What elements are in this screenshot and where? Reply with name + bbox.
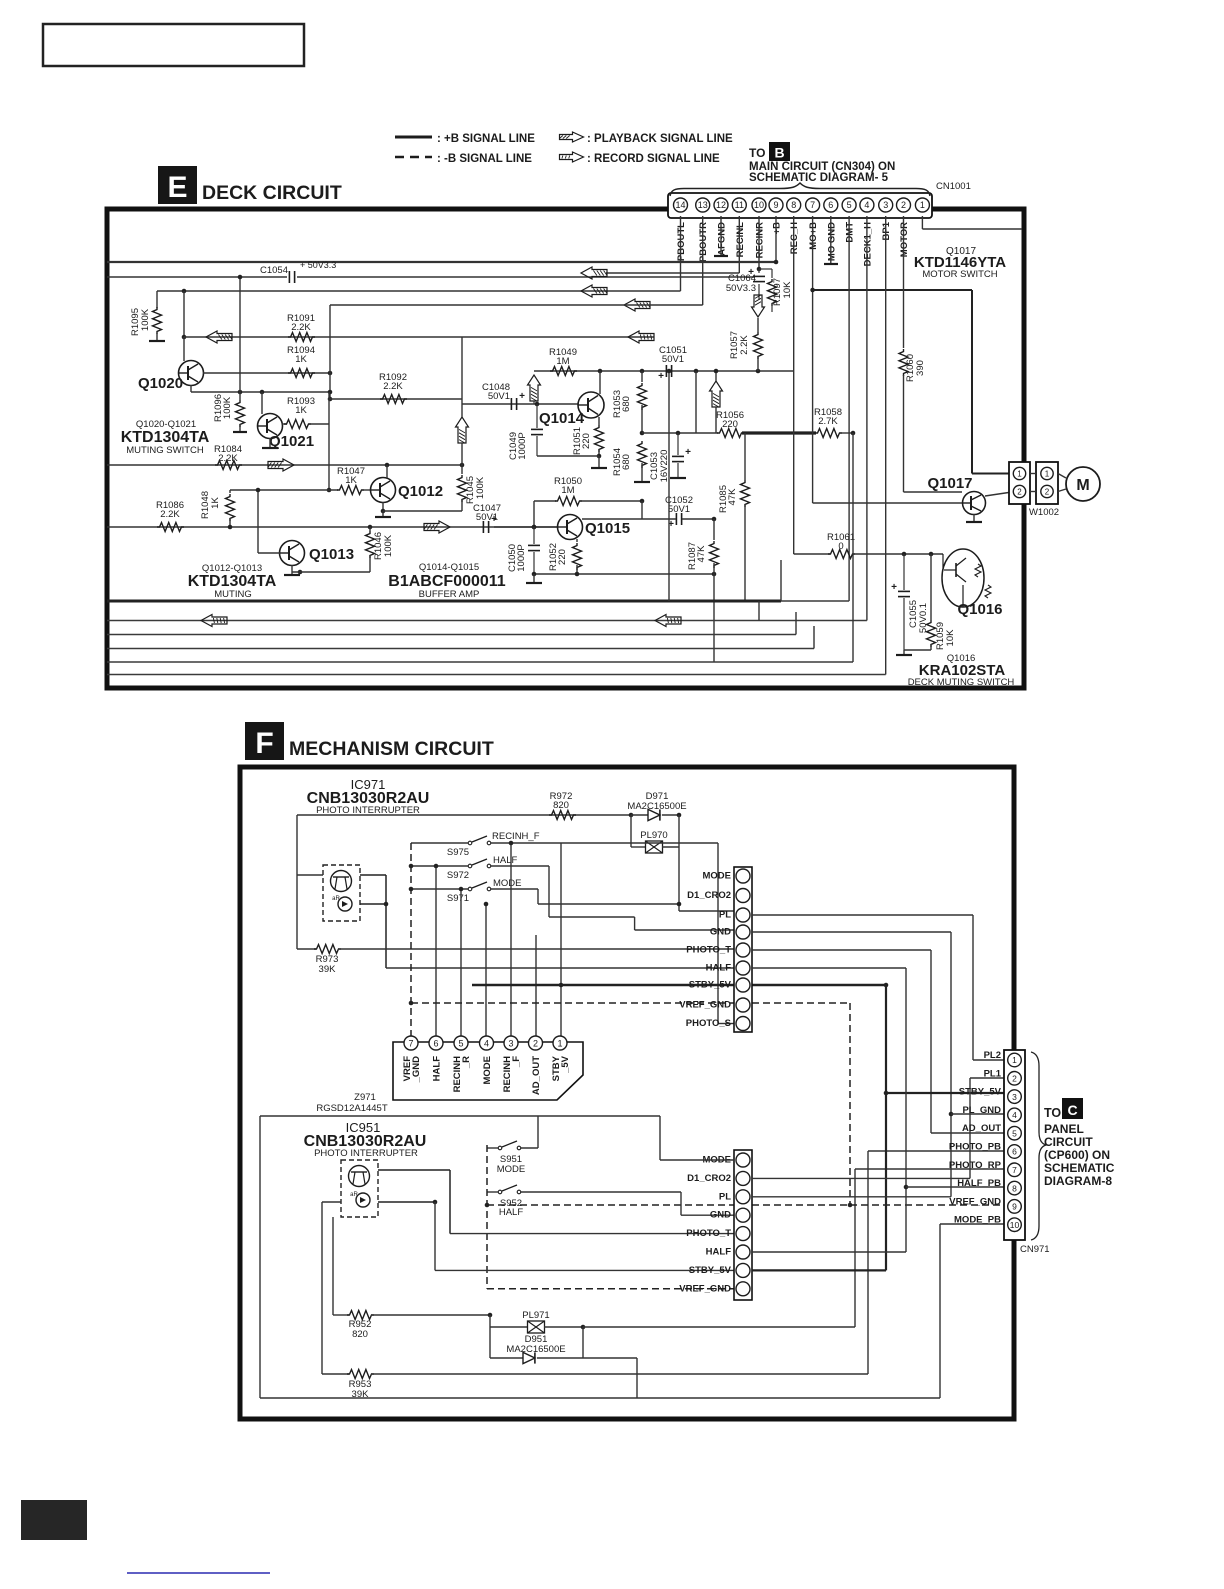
wire x696 vertical [695, 371, 697, 433]
resistor R1059 [930, 554, 932, 620]
svg-text:DECK CIRCUIT: DECK CIRCUIT [202, 182, 342, 204]
node RECINR junction [757, 267, 762, 272]
wire upper GND right to PL_GND [752, 931, 951, 933]
wire y949 PHOTO_T row [338, 948, 734, 950]
svg-text:+: + [658, 371, 664, 382]
transistor Q1014 [578, 392, 604, 418]
pin 8 CN1001 [787, 198, 801, 212]
wire Q1013 emitter ground [291, 565, 293, 575]
transistor Q1021 [261, 392, 263, 414]
svg-text:PHOTO_T: PHOTO_T [686, 945, 731, 956]
switch S971 [468, 887, 472, 891]
svg-text:RECINL: RECINL [735, 222, 746, 258]
wire y815 [297, 814, 631, 816]
svg-text:4: 4 [1012, 1110, 1017, 1120]
capacitor C1053 [676, 431, 681, 436]
svg-text:9: 9 [1012, 1202, 1017, 1212]
svg-text:PL_GND: PL_GND [962, 1105, 1001, 1116]
svg-text:39K: 39K [352, 1389, 370, 1400]
wire pin3 BP1 down [885, 216, 887, 675]
resistor R1053 [641, 371, 643, 382]
resistor R1095 [156, 291, 158, 308]
pin MODE upper strip [736, 869, 750, 883]
svg-text:PL2: PL2 [984, 1050, 1001, 1061]
wire photo951 left down [322, 1201, 341, 1203]
wire pin5 DMT down [848, 216, 850, 601]
wire photo951 led right [378, 1201, 435, 1203]
node Q1012 collector [385, 463, 390, 468]
motor M [1066, 467, 1100, 501]
lamp PL970 [630, 815, 632, 847]
wire Q1012 emitter [382, 502, 384, 511]
resistor R1047 [337, 486, 364, 495]
connector W1002 [1009, 462, 1030, 504]
svg-text:AD_OUT: AD_OUT [531, 1056, 542, 1095]
wire Q1017 collector to W1002 pin2 [985, 492, 1012, 496]
wire photo transistor right [360, 874, 386, 876]
wire y574 bottom [534, 573, 714, 575]
svg-text:Q1014-Q1015: Q1014-Q1015 [419, 562, 479, 573]
resistor R952 [347, 1311, 374, 1320]
transistor Q1013 [280, 541, 305, 566]
svg-text:2.2K: 2.2K [383, 381, 403, 392]
wire bottom rail 4 [107, 648, 814, 650]
node R1059 top [929, 552, 934, 557]
playback arrow y527 [424, 521, 450, 533]
svg-text:Q1013: Q1013 [309, 546, 354, 563]
svg-text:+B: +B [772, 222, 783, 235]
wire x855 up to PHOTO_T row [854, 1169, 856, 1327]
resistor R1094 [288, 369, 315, 378]
transistor Q1016 dual [942, 549, 984, 607]
pin D1_CRO2 upper strip [736, 889, 750, 903]
node rail junction x184 [182, 289, 187, 294]
svg-text:50V3.3: 50V3.3 [726, 283, 756, 294]
svg-text:PBOUTR: PBOUTR [698, 222, 709, 262]
wire IC951 loop bottom [260, 1397, 940, 1399]
wire x330 to rail y305 [330, 304, 703, 306]
legend -B signal line [395, 156, 432, 159]
wire lower STBY row [752, 1269, 886, 1271]
svg-text:220: 220 [581, 433, 592, 449]
svg-text:MOTOR: MOTOR [899, 222, 910, 257]
svg-text:MODE: MODE [493, 878, 522, 889]
record arrow x716 up [710, 381, 723, 407]
svg-text:Q1015: Q1015 [585, 520, 630, 537]
node PL971 left [488, 1313, 493, 1318]
svg-text:100K: 100K [475, 476, 486, 499]
wire x669 vertical [668, 371, 670, 601]
wire rail y273 [606, 272, 739, 274]
wire bottom rail 6 [107, 674, 886, 676]
svg-text:VREF_GND: VREF_GND [949, 1196, 1001, 1207]
wire stub x781 [780, 560, 782, 601]
svg-text:5: 5 [1012, 1128, 1017, 1138]
svg-text:MOTOR SWITCH: MOTOR SWITCH [922, 269, 997, 280]
capacitor C1052 [675, 513, 677, 525]
svg-text:10: 10 [754, 200, 764, 210]
pin 6 CN971 [1008, 1145, 1022, 1159]
pin 7 Z971 [404, 1036, 418, 1050]
node R1045 top [460, 463, 465, 468]
svg-text:PL: PL [719, 910, 731, 921]
svg-text:PHOTO_PB: PHOTO_PB [949, 1142, 1001, 1153]
wire y404 base line [462, 403, 578, 405]
pin VREF_GND lower strip [736, 1282, 750, 1296]
svg-text:1M: 1M [556, 356, 569, 367]
transistor Q1015 [558, 515, 583, 540]
wire y1374 right [371, 1373, 868, 1375]
ground Q1017 [973, 514, 975, 522]
legend +B signal line [395, 136, 432, 139]
wire lower D1_CRO2 to PL1 [752, 1177, 970, 1179]
svg-text:: RECORD SIGNAL LINE: : RECORD SIGNAL LINE [587, 153, 720, 165]
photo interrupter IC951 symbol [341, 1160, 378, 1217]
ground C1053 [670, 477, 686, 479]
title box (empty) [43, 24, 304, 66]
svg-text:PHOTO_S: PHOTO_S [686, 1018, 731, 1029]
svg-text:Z971: Z971 [354, 1092, 376, 1103]
svg-text:MO GND: MO GND [826, 222, 837, 261]
pin VREF_GND upper strip [736, 998, 750, 1012]
svg-text:MODE_PB: MODE_PB [954, 1215, 1001, 1226]
svg-text:MODE: MODE [482, 1056, 493, 1085]
wire x679 down to PL [678, 847, 680, 911]
wire x886 to pin3 [886, 1092, 1004, 1094]
svg-text:PANEL: PANEL [1044, 1122, 1084, 1136]
record arrow x462 up [456, 417, 469, 443]
svg-text:2: 2 [533, 1039, 538, 1049]
brace to main circuit [670, 183, 930, 196]
svg-text:HALF: HALF [432, 1056, 443, 1082]
svg-text:390: 390 [915, 360, 926, 376]
svg-text:STBY_5V: STBY_5V [689, 980, 732, 991]
pin 8 CN971 [1008, 1181, 1022, 1195]
playback arrow on rail y273 [581, 267, 607, 279]
svg-text:11: 11 [735, 200, 744, 210]
svg-text:39K: 39K [319, 964, 337, 975]
svg-text:Q1020: Q1020 [138, 375, 183, 392]
svg-text:2: 2 [1017, 488, 1022, 497]
capacitor C1064 [758, 269, 760, 273]
pin 4 CN1001 [860, 198, 874, 212]
wire STBY x886 thick vertical [885, 985, 887, 1270]
pin PHOTO_T lower strip [736, 1227, 750, 1241]
svg-text:MODE: MODE [703, 871, 732, 882]
svg-text:MUTING SWITCH: MUTING SWITCH [126, 445, 204, 456]
wire S975 left [411, 842, 468, 844]
resistor R1087 [712, 517, 717, 522]
connector photo strip upper [734, 867, 752, 1032]
svg-text:9: 9 [773, 200, 778, 210]
wire R952 loop [332, 1217, 334, 1315]
svg-text:47K: 47K [696, 545, 707, 563]
wire x868 up to PHOTO_PB [867, 1151, 869, 1374]
ground R1095 [156, 333, 158, 341]
svg-text:CN1001: CN1001 [936, 181, 971, 192]
wire Q1013 base [258, 552, 280, 554]
svg-text:: +B SIGNAL LINE: : +B SIGNAL LINE [437, 133, 535, 145]
pin STBY_5V lower strip [736, 1263, 750, 1277]
wire +B rail [107, 261, 777, 263]
wire bottom rail 3 [107, 634, 796, 636]
svg-text:820: 820 [352, 1329, 368, 1340]
wire S972 left [411, 865, 468, 867]
svg-text:S975: S975 [447, 847, 469, 858]
svg-text:Q1016: Q1016 [957, 601, 1002, 618]
svg-text:220: 220 [557, 549, 568, 565]
svg-text:AFGND: AFGND [717, 222, 728, 256]
wire Q1014 collector [599, 371, 601, 394]
svg-text:W1002: W1002 [1029, 507, 1059, 518]
svg-text:AD_OUT: AD_OUT [962, 1123, 1001, 1134]
capacitor C1049 [535, 402, 540, 407]
svg-text:PBOUTL: PBOUTL [676, 222, 687, 261]
svg-text:Q1017: Q1017 [927, 475, 972, 492]
resistor R953 [347, 1370, 374, 1379]
wire HALF row [386, 967, 734, 969]
switch S975 [468, 841, 472, 845]
svg-text:STBY_5V: STBY_5V [959, 1087, 1002, 1098]
pin 2 CN1001 [897, 198, 911, 212]
svg-text:50V0.1: 50V0.1 [918, 603, 929, 633]
wire upper PL right [752, 914, 973, 916]
svg-text:F: F [255, 727, 273, 760]
svg-text:+: + [519, 391, 525, 402]
svg-text:1000P: 1000P [517, 432, 528, 459]
pin STBY_5V upper strip [736, 978, 750, 992]
svg-text:PHOTO_RP: PHOTO_RP [949, 1160, 1002, 1171]
svg-text:2: 2 [1012, 1074, 1017, 1084]
wire Q1012 collector up [386, 465, 388, 478]
pin 12 CN1001 [714, 198, 728, 212]
wire bottom rail thick [107, 600, 781, 603]
svg-text:PL970: PL970 [640, 830, 667, 841]
svg-text:1M: 1M [561, 485, 574, 496]
pin 11 CN1001 [732, 198, 746, 212]
switch S951 [498, 1146, 502, 1150]
wire -B dashed to VREF_GND [487, 1288, 734, 1290]
resistor R1045 [461, 465, 463, 474]
pin 5 Z971 [454, 1036, 468, 1050]
record arrow rail2 left [201, 615, 227, 627]
svg-text:2: 2 [1045, 488, 1050, 497]
capacitor C1047 [482, 521, 484, 533]
wire upper PHOTO_T to AD_OUT [752, 949, 931, 951]
wire y433 thick to R1058 [742, 431, 816, 434]
switch S952 [498, 1190, 502, 1194]
svg-text:MECHANISM CIRCUIT: MECHANISM CIRCUIT [289, 738, 494, 760]
wire y1327 to PHOTO_T951 [583, 1326, 855, 1328]
svg-text:VREF_GND: VREF_GND [679, 1000, 731, 1011]
resistor R1061 [828, 550, 855, 559]
wire x681 to GND row [680, 1192, 682, 1215]
wire lower MODE row [660, 1159, 734, 1161]
svg-text:DECK1_H: DECK1_H [862, 222, 873, 266]
svg-text:3: 3 [508, 1039, 513, 1049]
svg-text:3: 3 [883, 200, 888, 210]
wire y433 [642, 432, 718, 434]
pin HALF lower strip [736, 1245, 750, 1259]
ground R1054 [634, 481, 650, 483]
wire pin9 +B stub [775, 216, 777, 262]
resistor R1052 [576, 539, 578, 542]
pin PL upper strip [736, 908, 750, 922]
svg-text:1000P: 1000P [516, 544, 527, 571]
svg-text:Q1012: Q1012 [398, 483, 443, 500]
svg-text:D1_CRO2: D1_CRO2 [687, 1173, 731, 1184]
svg-text:PHOTO_T: PHOTO_T [686, 1228, 731, 1239]
wire photo951 transistor right [378, 1169, 450, 1171]
svg-text:10K: 10K [945, 629, 956, 647]
svg-text:CN971: CN971 [1020, 1244, 1050, 1255]
wire y337 playback line [184, 336, 462, 338]
svg-text:1: 1 [920, 200, 925, 210]
wire photo box to R973 [296, 875, 298, 949]
wire x241 from 50V rail [239, 277, 241, 392]
svg-text:MA2C16500E: MA2C16500E [627, 801, 686, 812]
pin 1 CN1001 [915, 198, 929, 212]
resistor R1093 [282, 423, 287, 425]
wire C1049 R1051 join [537, 455, 599, 457]
resistor R1050 [532, 525, 537, 530]
wire y554 R1061 line [794, 553, 830, 555]
capacitor C1048 [510, 398, 512, 410]
svg-text:RECINR: RECINR [755, 222, 766, 259]
svg-text:MODE: MODE [497, 1164, 526, 1175]
footer link line [127, 1572, 270, 1574]
svg-text:_F: _F [511, 1056, 522, 1068]
svg-text:PL1: PL1 [984, 1068, 1002, 1079]
svg-text:HALF: HALF [499, 1207, 523, 1218]
playback arrow on rail y291 [581, 285, 607, 297]
wire S975 right to PHOTO_S [491, 842, 718, 844]
brace CN971 [1031, 1052, 1046, 1240]
svg-text:PL: PL [719, 1191, 731, 1202]
wire pin7 MO+B down [812, 216, 814, 503]
diode D971 [631, 814, 648, 816]
wire y650 ground bus [904, 649, 931, 651]
wire Q1021 emitter ground [269, 438, 271, 448]
pin 6 Z971 [429, 1036, 443, 1050]
svg-text:50V1: 50V1 [668, 504, 690, 515]
svg-text:_5V: _5V [560, 1055, 571, 1074]
resistor R1086 [157, 523, 184, 532]
svg-text:BUFFER AMP: BUFFER AMP [419, 589, 480, 600]
node y433 [640, 431, 645, 436]
svg-text:2.7K: 2.7K [818, 416, 838, 427]
svg-text:VREF_GND: VREF_GND [679, 1283, 731, 1294]
svg-text:8: 8 [791, 200, 796, 210]
svg-text:5: 5 [458, 1039, 463, 1049]
svg-text:1K: 1K [295, 354, 307, 365]
svg-text:KTD1304TA: KTD1304TA [121, 429, 210, 446]
node R1053 top [640, 369, 645, 374]
wire S971 right joins lamp net [491, 888, 538, 890]
svg-text:HALF: HALF [706, 963, 732, 974]
pin 3 CN1001 [879, 198, 893, 212]
pin 4 Z971 [480, 1036, 494, 1050]
svg-text:1: 1 [1045, 470, 1050, 479]
svg-text:: PLAYBACK SIGNAL LINE: : PLAYBACK SIGNAL LINE [587, 133, 733, 145]
playback arrow y465 [268, 459, 294, 471]
svg-text:100K: 100K [140, 308, 151, 331]
svg-text:1K: 1K [210, 497, 221, 509]
wire S972 right to GND row [491, 865, 549, 867]
wire x853 down from R1058 [852, 433, 854, 662]
playback arrow y337 [206, 331, 232, 343]
wire pins vertical x486 [485, 904, 487, 1036]
wire Q1015 collector [640, 499, 645, 504]
section label E DECK CIRCUIT [158, 166, 197, 204]
pin 4 CN971 [1008, 1108, 1022, 1122]
ground C1050 [533, 574, 535, 583]
wire emitter to R1045 [383, 510, 462, 512]
svg-text:CIRCUIT: CIRCUIT [1044, 1135, 1093, 1149]
svg-text:2.2K: 2.2K [160, 509, 180, 520]
svg-text:13: 13 [698, 200, 708, 210]
svg-text:1K: 1K [295, 405, 307, 416]
svg-text:1: 1 [557, 1039, 562, 1049]
wire upper HALF right to HALF_PB and lower HALF [752, 967, 906, 969]
svg-text:100K: 100K [222, 396, 233, 419]
wire MO+B to motor feed [813, 289, 972, 291]
wire MOTOR to Q1017 collector [904, 491, 963, 493]
wire S952 left stub [487, 1191, 498, 1193]
svg-text:7: 7 [1012, 1165, 1017, 1175]
svg-text:D1_CRO2: D1_CRO2 [687, 890, 731, 901]
pin 13 CN1001 [696, 198, 710, 212]
resistor R1096 [239, 392, 241, 400]
svg-text:DIAGRAM-8: DIAGRAM-8 [1044, 1174, 1112, 1188]
wire STBY_5V thick row [472, 984, 886, 987]
transistor Q1012 [371, 478, 396, 503]
svg-text:S971: S971 [447, 893, 469, 904]
svg-text:+ 50V3.3: + 50V3.3 [300, 260, 336, 270]
resistor R1058 [815, 429, 842, 438]
pin 9 CN971 [1008, 1200, 1022, 1214]
svg-text:E: E [167, 171, 187, 204]
connector Z971 socket [393, 1042, 583, 1100]
svg-text:PHOTO INTERRUPTER: PHOTO INTERRUPTER [314, 1148, 418, 1159]
svg-text:BP1: BP1 [881, 221, 892, 240]
svg-text:_GND: _GND [411, 1056, 422, 1084]
svg-text:RECINH_F: RECINH_F [492, 831, 540, 842]
wire pin2 MOTOR down through R1060 [903, 216, 905, 348]
resistor R973 [297, 948, 316, 950]
node x696 [694, 369, 699, 374]
resistor R1060 [899, 349, 908, 376]
ground Q1014 emitter [598, 456, 600, 468]
wire y371 rail [534, 370, 794, 372]
wire pin8 REC_H down [793, 216, 795, 554]
ground AFGND [720, 216, 722, 256]
resistor R1046 [368, 525, 373, 530]
svg-text:C1054: C1054 [260, 265, 288, 276]
svg-text:3: 3 [1012, 1092, 1017, 1102]
pin 9 CN1001 [769, 198, 783, 212]
svg-text:680: 680 [621, 396, 632, 412]
resistor R1057 [754, 332, 763, 359]
svg-text:14: 14 [675, 200, 685, 210]
wire pin10 RECINR down [758, 216, 760, 269]
pin PHOTO_S upper strip [736, 1017, 750, 1031]
svg-text:aR: aR [332, 896, 340, 902]
transistor Q1020 [183, 337, 185, 361]
svg-text:M: M [1076, 477, 1089, 494]
switch S972 [468, 864, 472, 868]
wire Q1020 emitter [190, 385, 192, 392]
